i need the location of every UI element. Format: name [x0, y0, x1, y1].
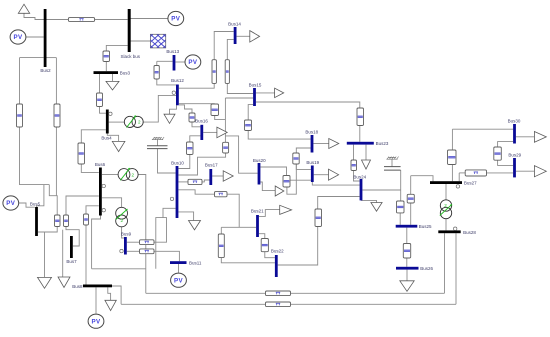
wire Bus3 load [112, 74, 114, 81]
line block line 21-22 [261, 239, 268, 252]
wire Bus20 to line 20-19 [260, 167, 286, 176]
load load Bus19 [329, 169, 339, 180]
wire Bus24 right [362, 189, 400, 191]
shunt shunt at Bus10 [147, 137, 168, 149]
wire Bus19 load [314, 174, 329, 176]
svg-text:2: 2 [132, 172, 135, 177]
load load Bus8 [105, 300, 116, 310]
wire to line 2-5 block [19, 58, 21, 104]
line block line 5-7 M1 [55, 215, 61, 227]
line block line 10-20 [223, 142, 229, 153]
line block line 24-25 [397, 201, 405, 213]
line block line 14-15 [225, 60, 229, 84]
bus Bus9 [121, 232, 132, 255]
wire Bus21 to line 21-22 [259, 234, 265, 239]
load load Bus5 [38, 277, 52, 288]
wire Bus19 to Bus24 [312, 182, 359, 185]
line block line 9-10 [140, 240, 155, 245]
svg-text:Bus20: Bus20 [253, 158, 266, 163]
svg-text:Bus25: Bus25 [419, 224, 432, 229]
wire line 27-29 to Bus29 [487, 172, 514, 174]
wire Bus10 to line 10-17 [178, 181, 188, 183]
wire line 1-3 top [106, 45, 127, 51]
svg-text:Bus2: Bus2 [40, 68, 51, 73]
wire Bus10 to line 10-21 [178, 190, 214, 194]
load load Bus2 area [18, 4, 29, 13]
line block line 15-18 [245, 120, 252, 131]
svg-text:Bus12: Bus12 [171, 78, 184, 83]
wire Bus23 to line 23-24 [353, 145, 355, 160]
wire line 27-30 top [451, 129, 453, 150]
wire riser to Bus15 [225, 97, 253, 99]
wire line 25-27 top [410, 176, 412, 195]
bus Bus30 [508, 119, 521, 144]
line block line 10-22 [218, 234, 224, 258]
svg-text:Bus9: Bus9 [121, 232, 132, 237]
line block line 10-21 [215, 192, 228, 197]
bus Bus24 [353, 174, 366, 200]
wire V2 bottom [215, 116, 226, 120]
bus Bus27 [430, 181, 477, 186]
port Bus4 [109, 112, 112, 115]
bus Bus20 [253, 158, 266, 185]
bus Bus22 [271, 249, 284, 277]
line block line 6-28 [266, 291, 291, 296]
line block line 22-24 [315, 209, 322, 227]
generator PV1 [168, 11, 184, 25]
wire line 12-13 to Bus13 [157, 60, 173, 62]
wire Bus25 to line 25-26 [406, 228, 408, 244]
wire Bus27 to line 27-29 [459, 172, 465, 174]
wire line 25-27 to Bus25 [410, 203, 412, 225]
wire line 9-10 riser [154, 218, 167, 243]
line block line 18-19 [293, 153, 299, 164]
wire Bus17 load [212, 175, 223, 177]
wire slack bus to slack generator box [131, 40, 152, 42]
wire block 16-10 to Bus10 [178, 155, 189, 169]
line block line 27-30 [448, 150, 457, 165]
line block line 1-3 [103, 51, 110, 62]
bus Bus29 [508, 153, 521, 178]
wire line 24-25 to Bus25 [399, 213, 401, 225]
wire Bus26 load [406, 270, 408, 281]
load load Bus20 [275, 186, 284, 196]
wire line 23-24 to Bus24 [354, 171, 360, 182]
wire block 10-22 top stub [220, 227, 222, 234]
svg-text:Slack bus: Slack bus [121, 54, 141, 59]
bus Bus17 [205, 163, 218, 185]
svg-text:Bus11: Bus11 [189, 260, 202, 265]
wire line 1-2 right to slack bus [95, 19, 128, 21]
load load Bus21 [280, 205, 292, 214]
wire Bus29 load [516, 170, 535, 172]
wire Bus21 load [259, 210, 280, 217]
wire block M3 top to Bus6 [86, 206, 99, 214]
svg-text:2: 2 [138, 120, 141, 125]
wire Bus4 load [107, 134, 118, 142]
transformer T6-10 [118, 168, 138, 180]
bus Bus13 [166, 49, 179, 71]
bus Bus18 [305, 130, 318, 153]
wire to block M1 top [49, 185, 57, 215]
port Bus6 a [102, 184, 105, 187]
svg-text:Bus26: Bus26 [420, 266, 433, 271]
wire Bus30 to line 29-30 [498, 142, 513, 147]
wire to Bus21 [221, 226, 256, 228]
port Bus10 [170, 197, 173, 200]
svg-text:Bus18: Bus18 [305, 130, 318, 135]
wire transformer T27-28 to Bus28 [445, 219, 447, 231]
bus Bus16 [195, 119, 208, 141]
wire Bus8 to rail 2 [112, 286, 121, 304]
wire Bus16 to block 16-10 [190, 136, 201, 142]
line block line 25-26 [403, 244, 410, 259]
transformer T4-12 [124, 116, 143, 128]
wire line 20-19 bottom stub [287, 164, 296, 194]
svg-text:PV: PV [6, 200, 16, 207]
wire Bus22 to line 22-24 [278, 227, 318, 266]
load load Bus29 [534, 166, 546, 177]
wire Bus10 load [178, 212, 193, 221]
wire shunt24 riser [400, 170, 402, 201]
wire Bus28 rail2 riser [455, 233, 457, 304]
load load Bus7 [58, 277, 70, 288]
bus Bus25 [396, 224, 432, 229]
wire Bus10 left loop [156, 208, 176, 268]
wire Bus6 bottom riser [92, 216, 101, 269]
wire block M2 top to Bus6 [66, 196, 99, 215]
load load Bus10 [189, 221, 201, 230]
wire Bus24 load [361, 200, 377, 202]
svg-text:2: 2 [121, 218, 124, 223]
load load Bus4 [112, 141, 125, 151]
line block line 23-24 [351, 160, 357, 171]
line block line 4-6 [78, 143, 85, 164]
wire PV2 to Bus2 [25, 36, 43, 38]
line block line 9-11 [140, 249, 155, 254]
line block line 19-20 [283, 176, 290, 188]
wire line 29-30 to Bus29 [498, 160, 513, 165]
wire Bus12 to block V2 [179, 103, 215, 105]
wire line 12-13 top stub [156, 61, 158, 65]
wire line 21-22 to Bus22 [265, 252, 275, 258]
line block line 2-5 [17, 104, 23, 127]
wire to Bus5 top [37, 185, 44, 208]
wire line 27-29 stub [458, 173, 460, 181]
wire Bus6 to transformer T6-10 [102, 174, 118, 176]
wire Bus7 load tap [62, 230, 64, 277]
wire Bus8 load [108, 287, 111, 300]
wire line 15-23 to Bus23 [359, 126, 361, 142]
wire line 10-21 right [227, 194, 239, 227]
load load Bus12 [164, 114, 175, 123]
line block line 8-28 [266, 302, 291, 307]
wire M1 bottom to Bus5 [38, 227, 57, 233]
wire line 1-3 bottom to Bus3 [105, 62, 107, 72]
wire riser vertical [224, 98, 226, 142]
line block line 12-14 [212, 60, 216, 84]
svg-text:Bus6: Bus6 [95, 162, 106, 167]
line block line 16-10 [187, 142, 194, 155]
wire line 4-6 to Bus6 [81, 164, 99, 172]
line block line 12-16 [189, 113, 195, 122]
wire line 14-15 to Bus15 [227, 83, 253, 93]
svg-text:Bus8: Bus8 [72, 284, 83, 289]
wire line 20-19 to Bus19 [290, 179, 311, 181]
wire block 12-16 to Bus16 [192, 122, 200, 127]
load load Bus23 [362, 160, 371, 169]
wire Bus13 to PV13 [175, 61, 185, 63]
wire horizontal link [92, 268, 146, 270]
wire line 12-13 to Bus12 [157, 79, 176, 85]
wire Bus11 to PV11 [178, 264, 180, 273]
svg-text:Bus16: Bus16 [195, 119, 208, 124]
line block line 12-15 [211, 104, 219, 116]
bus Bus12 [171, 78, 184, 105]
svg-text:Bus29: Bus29 [508, 153, 521, 158]
svg-text:Bus7: Bus7 [66, 259, 77, 264]
wire line 3-4 top [99, 74, 101, 93]
wire block BR to Bus10 [178, 153, 225, 175]
wire line 27-30 to Bus27 [451, 165, 453, 182]
bus Bus5 [30, 201, 41, 236]
port Bus28 [454, 227, 457, 230]
svg-text:2: 2 [444, 203, 447, 208]
generator PV2 [10, 30, 26, 44]
bus Bus10 [171, 160, 184, 218]
wire line 14-15 to Bus14 [227, 39, 233, 59]
wire transformer T6-10 riser down [138, 175, 146, 294]
slack generator box [131, 34, 185, 48]
wire Bus18 load [313, 143, 328, 145]
port Bus9 [120, 249, 123, 252]
wire line 15-18 to Bus18 [248, 131, 310, 140]
svg-text:Bus23: Bus23 [376, 141, 389, 146]
wire Bus12 to line 12-14 [179, 83, 214, 88]
svg-text:PV: PV [91, 318, 101, 325]
wire transformer T4-12 to Bus12 [143, 95, 176, 122]
wire Bus12 load [170, 105, 177, 114]
svg-text:Bus10: Bus10 [171, 160, 184, 165]
wire Bus8 to PV8 [95, 287, 97, 314]
svg-text:Bus15: Bus15 [249, 83, 262, 88]
svg-text:Bus19: Bus19 [306, 160, 319, 165]
wire block M2 to Bus7 [66, 227, 79, 247]
wire line 2-6 block down [55, 127, 57, 196]
wire rail 2 [121, 303, 456, 305]
line block line 2-6 [54, 104, 60, 127]
bus Bus11 [170, 260, 202, 265]
shunt shunt at Bus24 [384, 157, 401, 171]
wire Bus23 load [365, 145, 367, 160]
wire PV5 to Bus5 [18, 203, 35, 207]
bus Bus28 [438, 230, 476, 235]
bus Bus3 [94, 71, 131, 76]
wire Bus5 load tap [44, 232, 46, 277]
line block line 3-4 [97, 93, 103, 107]
svg-text:Bus27: Bus27 [464, 181, 477, 186]
generator PV11 [171, 273, 187, 287]
wire branch to Bus20 [225, 136, 257, 173]
wire Bus4 to line 4-6 block [81, 130, 106, 143]
wire Bus28 rail1 riser [444, 233, 446, 293]
wire Bus30 load [516, 136, 535, 138]
svg-text:Bus24: Bus24 [353, 174, 366, 179]
wire block 10-22 to Bus22 [221, 258, 275, 263]
wire Bus15 load [256, 92, 275, 94]
wire to line 2-6 block [55, 58, 57, 104]
bus Bus15 [249, 83, 262, 106]
bus Bus4 [101, 110, 112, 141]
bus Bus19 [306, 160, 319, 182]
wire Bus18 to line 18-19 [296, 148, 310, 153]
bus Bus8 [72, 284, 112, 289]
load load Bus24 [371, 203, 382, 212]
bus Bus21 [251, 208, 264, 237]
bus Bus26 [396, 266, 433, 271]
line block line 29-30 [494, 147, 502, 160]
port Bus27 [456, 185, 459, 188]
wire Bus2 left branch [20, 57, 44, 59]
wire rail 1 [146, 292, 445, 294]
wire Bus15 to line 15-23 [256, 102, 360, 108]
line block line 1-2 [68, 18, 94, 22]
load load Bus14 [250, 31, 260, 42]
port Bus6 b [102, 209, 105, 212]
wire Bus9 to line 9-10 [127, 241, 140, 243]
svg-text:PV: PV [13, 34, 23, 41]
port Bus12 [172, 91, 175, 94]
wire Bus4 to transformer T4-12 [109, 121, 125, 123]
svg-text:Bus4: Bus4 [101, 136, 112, 141]
wire slack bus to PV1 [131, 18, 169, 20]
svg-text:Bus22: Bus22 [271, 249, 284, 254]
transformer T6-9 [116, 207, 128, 227]
wire Bus15 to line 15-18 [248, 105, 253, 120]
svg-text:PV: PV [171, 16, 181, 23]
bus Bus7 [66, 236, 77, 264]
load load Bus30 [534, 132, 546, 143]
line block line 10-17 [188, 179, 202, 184]
bus Bus23 [347, 141, 389, 146]
wire line 18-19 to Bus19 [296, 164, 311, 169]
line block line 15-23 [357, 108, 364, 126]
wire line 25-26 to Bus26 [406, 258, 408, 267]
wire line 12-14 to Bus14 [214, 32, 234, 60]
wire Bus2 right branch [47, 57, 57, 59]
svg-text:PV: PV [174, 277, 184, 284]
wire line 22-24 to Bus24 [318, 197, 360, 210]
wire block M3 to Bus8 [85, 225, 87, 285]
svg-text:Bus14: Bus14 [228, 22, 241, 27]
line block line 6-8 M3 [84, 214, 89, 225]
wire line 2-5 down-left [20, 127, 50, 185]
wire Bus9 to line 9-11 [127, 250, 140, 252]
svg-text:Bus21: Bus21 [251, 208, 264, 213]
wire to Bus27 [411, 176, 433, 182]
wire Bus20 load [260, 182, 275, 191]
svg-text:Bus5: Bus5 [30, 201, 41, 206]
svg-text:PV: PV [188, 59, 198, 66]
load load Bus15 [275, 88, 284, 97]
wire Bus27 to transformer T27-28 [445, 184, 447, 200]
bus Slack bus [121, 9, 141, 59]
wire line 9-11 to Bus11 [154, 251, 179, 261]
line block line 25-27 [407, 194, 414, 203]
load load Bus26 [400, 281, 414, 292]
svg-text:Bus30: Bus30 [508, 119, 521, 124]
bus Bus2 [40, 9, 51, 73]
svg-text:Bus13: Bus13 [166, 49, 179, 54]
wire line 27-30 to Bus30 [452, 128, 513, 130]
bus Bus6 [95, 162, 106, 215]
wire Bus12 to block 12-16 [179, 105, 192, 113]
load load Bus17 [223, 171, 233, 181]
wire Bus2 load / line 1-2 left [24, 13, 68, 19]
svg-text:Bus17: Bus17 [205, 163, 218, 168]
line block line 27-29 [465, 170, 486, 176]
generator PV13 [185, 55, 201, 69]
wire Bus14 load [237, 35, 250, 37]
line block line 6-7 M2 [64, 215, 69, 227]
wire Bus6 to transformer T6-9 [102, 198, 122, 208]
wire transformer T6-9 to Bus9 [122, 227, 124, 238]
load load Bus3 [106, 81, 119, 90]
wire line 3-4 bottom to Bus4 [100, 107, 106, 114]
svg-text:Bus3: Bus3 [120, 71, 131, 76]
line block line 12-13 [154, 66, 159, 80]
generator PV8 [88, 314, 104, 328]
wire line 10-17 to Bus17 [202, 180, 210, 182]
wire shunt10 to Bus10 [158, 149, 176, 173]
bus Bus14 [228, 22, 241, 44]
wire Bus16 load [203, 131, 217, 133]
svg-text:Bus28: Bus28 [463, 230, 476, 235]
transformer T27-28 [440, 200, 452, 219]
load load Bus16 [217, 127, 227, 138]
load load Bus18 [329, 139, 339, 149]
generator PV5 [3, 196, 19, 210]
